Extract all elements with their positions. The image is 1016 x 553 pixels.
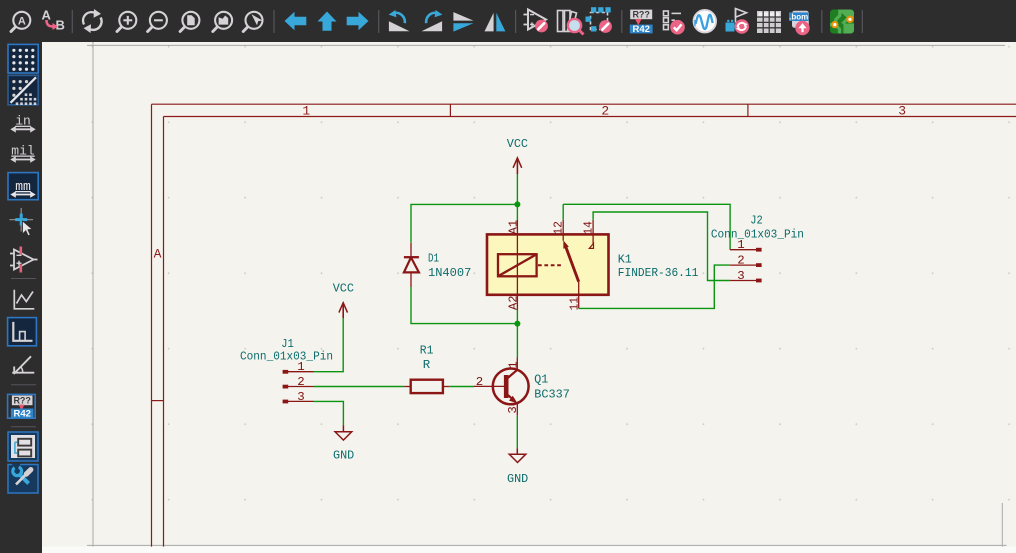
wire J1 pin 3 to GND — [314, 401, 344, 425]
sheet drawing frame (decorative) — [152, 104, 1016, 553]
assign footprints — [726, 9, 750, 34]
wire relay pin A2 to junction B — [516, 310, 518, 324]
svg-text:VCC: VCC — [507, 137, 528, 151]
wire junction A to D1 top corner — [411, 204, 517, 242]
svg-text:VCC: VCC — [333, 282, 354, 296]
zoom page — [180, 12, 199, 32]
svg-text:3: 3 — [506, 406, 520, 413]
svg-text:R42: R42 — [13, 409, 30, 420]
library browser — [558, 11, 584, 35]
hierarchy navigator — [8, 432, 38, 461]
svg-text:mm: mm — [15, 179, 31, 194]
resistor R1 — [404, 343, 449, 393]
LEFT TOOLBAR — [0, 42, 42, 553]
grid style dots — [8, 75, 38, 105]
zoom selection — [243, 12, 262, 32]
svg-text:in: in — [15, 114, 31, 129]
full crosshair cursor — [10, 208, 34, 236]
svg-text:.bom: .bom — [789, 13, 808, 22]
arrow left — [285, 12, 307, 30]
power symbol GND (bottom) — [507, 448, 528, 486]
svg-text:J2: J2 — [750, 213, 763, 227]
svg-text:12: 12 — [552, 221, 566, 235]
svg-text:A: A — [18, 15, 26, 27]
symbol editor — [524, 10, 548, 33]
svg-text:2: 2 — [297, 375, 304, 389]
power symbol VCC (left) — [333, 282, 354, 318]
wire R1 to Q1 base — [449, 386, 474, 388]
svg-text:2: 2 — [737, 254, 744, 268]
svg-text:A1: A1 — [506, 220, 520, 235]
free angle graphic lines — [14, 290, 34, 309]
wire J1 pin 2 to R1 — [314, 386, 405, 388]
zoom objects — [213, 12, 232, 32]
svg-text:Conn_01x03_Pin: Conn_01x03_Pin — [711, 227, 804, 241]
show hidden pins — [10, 247, 38, 273]
ERC — [664, 11, 685, 35]
wire node 12 corner to J2 pin 1 — [563, 204, 730, 249]
wire D1 bottom to junction B — [411, 287, 517, 324]
power symbol GND (left) — [333, 425, 354, 462]
wire relay pin 14 to J2 pin 3 — [593, 212, 730, 281]
annotate side icon R42 — [8, 394, 36, 419]
svg-text:14: 14 — [582, 221, 596, 235]
connector J1 — [240, 337, 333, 404]
open PCB editor — [830, 10, 854, 34]
svg-text:3: 3 — [297, 390, 304, 404]
svg-text:R1: R1 — [420, 343, 434, 357]
junction B — [514, 321, 520, 327]
svg-text:1: 1 — [506, 361, 520, 368]
svg-text:mil: mil — [11, 144, 35, 159]
svg-text:A: A — [154, 246, 162, 261]
rotate cw — [422, 10, 443, 31]
wire node 12 corner to relay pin 12 — [562, 204, 564, 220]
rotate ccw — [389, 10, 410, 31]
preferences tools — [8, 464, 38, 494]
annotate A-B — [42, 8, 65, 33]
svg-text:3: 3 — [898, 104, 906, 119]
mirror vertical — [453, 12, 473, 32]
wire Q1 emitter to GND — [516, 416, 518, 449]
arrow right — [347, 12, 369, 30]
svg-text:R??: R?? — [632, 10, 650, 20]
svg-text:R??: R?? — [13, 396, 31, 406]
svg-text:2: 2 — [476, 375, 483, 389]
HV wire mode (selected) — [8, 318, 37, 346]
svg-text:3: 3 — [737, 269, 744, 283]
svg-text:R42: R42 — [632, 24, 649, 35]
units mils — [10, 144, 35, 163]
wire junction B to Q1 collector — [516, 324, 518, 358]
grid show (selected) — [8, 44, 38, 73]
svg-text:K1: K1 — [618, 252, 632, 266]
svg-text:R: R — [423, 358, 431, 372]
mirror horizontal — [485, 13, 506, 32]
units mm (selected) — [8, 173, 38, 200]
svg-text:GND: GND — [507, 472, 528, 486]
svg-text:GND: GND — [333, 448, 354, 462]
zoom in — [117, 12, 136, 32]
status strip — [42, 547, 1016, 553]
zoom out — [148, 12, 167, 32]
footprint editor — [586, 7, 612, 33]
zoom fit — [11, 12, 30, 32]
annotate R42 — [630, 10, 653, 36]
svg-text:A2: A2 — [506, 296, 520, 311]
power symbol VCC (top) — [507, 137, 528, 174]
units inches — [10, 114, 35, 133]
connector J2 — [711, 213, 804, 283]
45 degree wire mode — [12, 356, 34, 374]
svg-text:1: 1 — [302, 104, 310, 119]
svg-text:BC337: BC337 — [534, 387, 570, 401]
svg-text:1N4007: 1N4007 — [428, 266, 471, 280]
arrow up — [318, 12, 337, 31]
relay K1 — [487, 220, 698, 311]
wire junction A to relay pin A1 — [516, 204, 518, 220]
BOM — [789, 11, 810, 35]
refresh — [83, 9, 102, 33]
wire VCC to junction A — [516, 174, 518, 204]
wire relay pin 11 to J2 pin 2 — [579, 265, 730, 308]
diode D1 — [404, 243, 471, 287]
symbol table — [757, 11, 781, 33]
svg-text:2: 2 — [601, 104, 609, 119]
wire J1 pin 1 to VCC — [314, 318, 344, 372]
simulator — [694, 10, 717, 33]
svg-text:FINDER-36.11: FINDER-36.11 — [618, 266, 699, 280]
svg-text:Q1: Q1 — [534, 373, 548, 387]
svg-text:B: B — [56, 18, 65, 33]
transistor Q1 — [474, 357, 570, 416]
junction A — [514, 201, 520, 207]
svg-text:D1: D1 — [428, 251, 439, 265]
svg-text:Conn_01x03_Pin: Conn_01x03_Pin — [240, 350, 333, 364]
TOP TOOLBAR — [0, 0, 1016, 42]
